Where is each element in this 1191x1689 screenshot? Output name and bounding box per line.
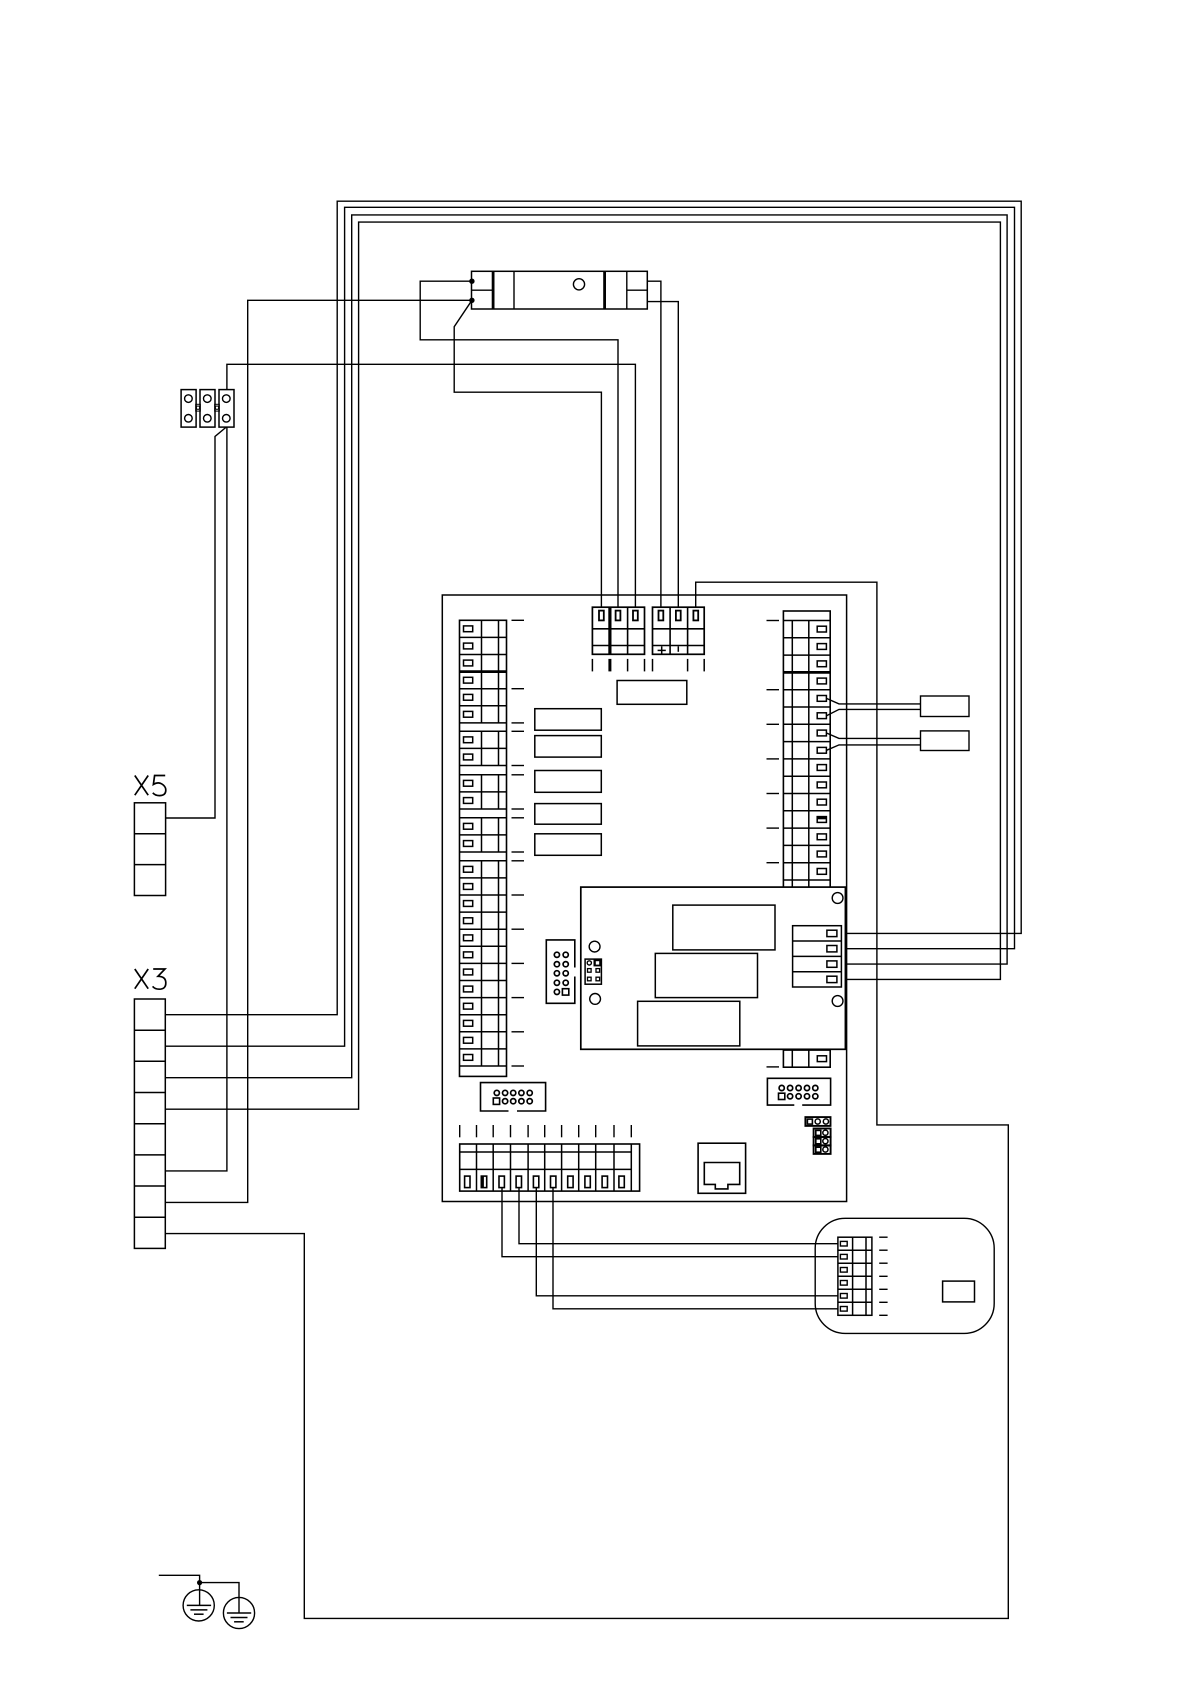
relay K1	[535, 709, 602, 731]
protective earth symbol PE1	[183, 1590, 214, 1621]
connector X3 (8-pole)	[134, 999, 165, 1248]
mounting hole sub-board top-right	[832, 893, 843, 904]
terminal block B (3-pole)	[653, 607, 705, 654]
fuse bridge link 2	[215, 404, 220, 411]
sub-board relay RL3	[638, 1001, 740, 1046]
terminal strip X1 (left, 24-pole)	[460, 620, 507, 1076]
wire DIP pin 5 to control unit terminal 5	[536, 1188, 838, 1296]
fuse bridge link 1	[196, 404, 201, 411]
wire X3 pin 8 to terminal block B pin 3 (bottom and right routing)	[165, 582, 1008, 1618]
relay K2	[535, 736, 602, 758]
wire earth stub	[159, 1575, 200, 1582]
wire DIP pin 3 to control unit terminal 2	[502, 1188, 838, 1257]
capacitor C1 (motor run capacitor)	[472, 271, 648, 309]
relay K3	[535, 771, 602, 793]
mounting hole sub-board top-left	[589, 941, 600, 952]
mounting hole sub-board bottom-left	[590, 994, 601, 1005]
connector J1 (2x5 header left)	[481, 1083, 546, 1111]
connector X5 (3-pole)	[134, 803, 165, 896]
jumper JP5	[814, 1145, 831, 1154]
connector lug E1	[921, 696, 970, 717]
connector J4 (4-pole)	[793, 926, 842, 987]
fuse holder F1.3	[219, 390, 234, 428]
terminal strip X2 (right, 16-pole)	[783, 611, 830, 1067]
tick marks control unit	[879, 1237, 887, 1315]
wire DIP pin 4 to control unit terminal 1	[519, 1188, 838, 1244]
wire capacitor lower terminal to X3 pin 7	[165, 300, 472, 1202]
wire capacitor right terminal to terminal block B pin 1	[647, 281, 661, 607]
protective earth symbol PE2	[223, 1597, 254, 1628]
jumper JP4	[814, 1137, 831, 1146]
jumper header JP1 (2x3)	[585, 959, 601, 984]
wire fuse block F1 top to terminal block A pin 3	[227, 364, 636, 607]
connector J3 (2x5 header) with keying notch	[546, 940, 575, 1003]
polarity mark - in block B	[677, 646, 679, 652]
tick marks above DIP strip	[460, 1125, 632, 1137]
wire fuse block F1 bottom to X3 pin 6	[165, 427, 227, 1171]
button S1 on control unit	[943, 1281, 975, 1302]
external control unit (rounded enclosure)	[815, 1218, 994, 1333]
relay K5	[535, 834, 602, 856]
control unit terminal strip (6-pole)	[838, 1237, 872, 1315]
connector lug E2	[921, 731, 970, 751]
wire to protective earth 2	[200, 1583, 239, 1613]
wire X3 pin1 to receiver connector J4 pin1 (nested loop 1)	[165, 201, 1021, 1015]
mounting hole sub-board bottom-right	[832, 996, 843, 1007]
junction dot capacitor upper terminal	[469, 279, 474, 284]
relay K0	[617, 681, 687, 705]
polarity mark + in block B	[658, 646, 666, 654]
wire X3 pin3 to receiver connector J4 pin3 (nested loop 3)	[165, 215, 1007, 1078]
label X3	[135, 969, 166, 989]
terminal block bottom leads	[592, 659, 704, 672]
wire DIP pin 6 to control unit terminal 6	[553, 1188, 838, 1309]
fuse holder F1.1	[181, 390, 196, 428]
wire capacitor lower terminal to terminal block A pin 1	[454, 300, 601, 607]
wire right strip pins 5/6 to lug E1	[827, 698, 921, 704]
RJ45 jack J5	[698, 1143, 746, 1193]
wire to protective earth 1	[199, 1583, 201, 1606]
wire X3 pin4 to receiver connector J4 pin4 (nested loop 4)	[165, 222, 1000, 1109]
sub-board relay RL1	[673, 905, 775, 950]
wire right strip pins 7/8 to lug E2	[827, 733, 921, 738]
wire capacitor right terminal to terminal block B pin 2	[647, 302, 678, 608]
label X5	[135, 776, 166, 796]
fuse holder F1.2	[200, 390, 215, 428]
wire fuse block F1 bottom to X5 pin 1	[166, 427, 227, 818]
wire capacitor upper terminal to terminal block A pin 2	[420, 281, 618, 607]
receiver sub-board	[581, 887, 846, 1049]
jumper JP3	[814, 1129, 831, 1138]
sub-board relay RL2	[655, 953, 757, 997]
jumper JP2 (1x3)	[805, 1117, 830, 1126]
relay K4	[535, 804, 602, 825]
DIP terminal strip X4 (10-pole)	[460, 1144, 640, 1191]
tick marks left strip	[512, 620, 525, 1066]
terminal block A (3-pole power input)	[592, 607, 644, 654]
junction dot earth node	[197, 1580, 202, 1585]
tick marks right strip	[767, 621, 780, 1067]
wire X3 pin2 to receiver connector J4 pin2 (nested loop 2)	[165, 207, 1014, 1046]
junction dot capacitor lower terminal	[469, 298, 474, 303]
connector J2 (2x5 header right)	[767, 1078, 830, 1105]
main control board outline	[442, 595, 846, 1202]
